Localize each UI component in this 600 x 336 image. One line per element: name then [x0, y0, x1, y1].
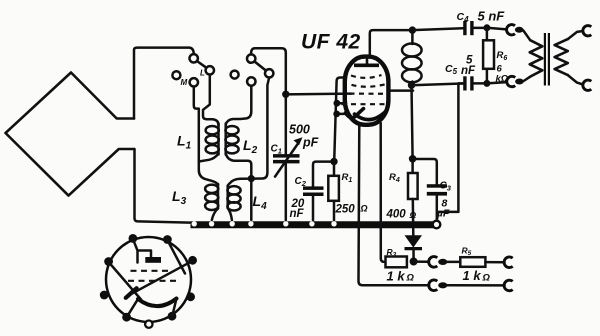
junction R1 top	[330, 158, 337, 165]
connector jack xfmr top-left	[507, 25, 515, 35]
connector jack line1 left	[429, 257, 438, 268]
wire heater pin down and right (lower output line)	[359, 123, 430, 285]
wire C5 left down to bus terminal	[437, 83, 463, 220]
svg-text:1 k: 1 k	[463, 268, 482, 283]
wire L4 bottom to bus	[228, 208, 232, 220]
svg-text:Ω: Ω	[482, 273, 491, 284]
wire node to connector	[414, 260, 429, 263]
wire anode top lead	[370, 30, 409, 56]
wire S2 L-contact down and left to L4 top	[228, 78, 270, 187]
resistor R5 1k	[460, 257, 485, 267]
wire S1 lower contact down to L3 top	[194, 87, 218, 185]
tube socket pinout diagram	[100, 234, 197, 328]
junction diode/R3 node	[410, 258, 418, 266]
wire secondary bottom lead	[568, 75, 583, 84]
bus terminal circle right end	[433, 221, 441, 229]
capacitor C4 5nF	[463, 21, 483, 35]
junction anode node	[409, 26, 416, 33]
wire line2 to right jack	[447, 284, 504, 287]
choke coil	[402, 34, 422, 85]
svg-text:pF: pF	[302, 136, 319, 150]
svg-text:1 k: 1 k	[387, 269, 406, 284]
connector jack line2 right	[504, 280, 513, 291]
svg-text:M: M	[181, 78, 188, 87]
junction C4/R6	[483, 24, 490, 31]
svg-text:Ω: Ω	[360, 204, 368, 214]
plug tip line2	[438, 282, 447, 288]
band switch S1	[172, 54, 214, 87]
diode	[405, 235, 423, 258]
coil L2	[225, 124, 238, 155]
wire node to jack	[487, 28, 507, 30]
svg-text:500: 500	[289, 123, 310, 137]
band switch S2	[231, 54, 274, 85]
plug tip	[438, 259, 447, 265]
tube UF42 envelope	[345, 57, 389, 125]
junction C5/R6	[483, 80, 490, 87]
capacitor C3 8uF	[427, 184, 447, 219]
svg-text:Ω: Ω	[409, 210, 417, 220]
connector jack line2 left	[429, 280, 438, 291]
wire choke node to C5	[412, 84, 464, 86]
svg-text:L: L	[200, 69, 205, 78]
ground bus bar	[191, 221, 434, 228]
junction on L2-bottom vertical	[248, 175, 255, 182]
plug tip xfmr top	[515, 27, 524, 33]
coil L4	[227, 186, 240, 211]
wire C3 top lead	[413, 159, 437, 184]
variable capacitor C1 500pF	[273, 137, 303, 220]
wire S1 L-contact to L1 top	[203, 75, 219, 125]
wire S2 top to grid vertical	[251, 48, 286, 154]
svg-text:nF: nF	[290, 208, 305, 220]
svg-text:400: 400	[386, 209, 407, 221]
svg-text:250: 250	[335, 204, 356, 216]
connector jack line1 right	[504, 257, 513, 268]
node dots on grid-cap vertical	[334, 100, 341, 107]
loop antenna	[6, 73, 135, 196]
wire pin to R3	[381, 123, 386, 262]
wire S2 lower contact to L2 top	[226, 86, 252, 125]
wire L2 bottom down to bus	[226, 154, 252, 221]
wire L1 bottom join	[199, 154, 219, 162]
transformer primary	[530, 40, 543, 76]
junction choke bottom	[408, 82, 415, 89]
svg-text:nF: nF	[461, 65, 476, 77]
wire R5 to right jack	[485, 261, 504, 264]
wire screen stub from tube	[390, 89, 414, 92]
svg-text:Ω: Ω	[406, 273, 415, 284]
resistor R3 1k	[386, 257, 407, 268]
wire secondary top lead	[568, 31, 583, 39]
connector jack xfmr bottom-right	[583, 80, 591, 90]
capacitor C2 20nF	[303, 162, 332, 221]
wire antenna top to S1	[134, 48, 194, 119]
wire to primary top	[523, 31, 530, 41]
transformer core	[545, 33, 549, 86]
coil L3	[205, 184, 218, 210]
capacitor C5 5nF	[463, 76, 505, 90]
svg-text:5 nF: 5 nF	[478, 9, 506, 24]
coil L1	[206, 124, 219, 155]
wire antenna bottom to ground bus	[135, 149, 191, 223]
svg-text:UF 42: UF 42	[301, 31, 361, 54]
wire tip to R5	[447, 261, 460, 264]
junction grid node	[282, 91, 289, 98]
resistor R4 400 ohm	[408, 159, 418, 236]
wire grid line to tube	[286, 92, 351, 95]
wire anode node to C4	[412, 28, 463, 30]
wire to primary bottom	[524, 77, 531, 81]
connector jack xfmr bottom-left	[507, 76, 515, 86]
plug tip xfmr bottom	[515, 79, 524, 85]
bus connection holes	[192, 221, 337, 226]
connector jack xfmr top-right	[583, 26, 591, 36]
transformer secondary	[555, 39, 568, 75]
resistor R6 6k	[483, 28, 494, 81]
wire choke bottom down to R4 node	[412, 85, 413, 159]
junction R4 top	[409, 155, 417, 163]
resistor R1 250 ohm	[328, 162, 339, 222]
wire L3 bottom to bus	[212, 209, 218, 221]
wire grid-cap vertical with tube stubs	[334, 78, 346, 162]
tube internals	[342, 56, 390, 120]
